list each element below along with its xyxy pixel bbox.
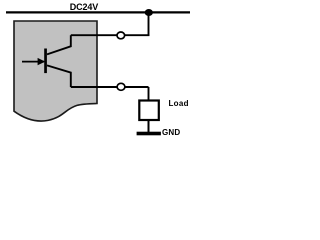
transistor Q1 base arrow [38, 58, 46, 65]
junction dot on DC24V rail [145, 9, 153, 16]
PLC output module body (shaded region) [14, 21, 97, 121]
transistor Q1 collector lead [47, 35, 71, 54]
svg-text:Load: Load [169, 99, 189, 108]
svg-text:GND: GND [162, 128, 180, 137]
wire: drop from emitter wire down to load [148, 87, 150, 101]
transistor Q1 base lead [22, 61, 44, 63]
load resistor box [139, 101, 159, 121]
wire: collector terminal horizontal [71, 34, 150, 36]
ground bar [137, 132, 161, 136]
wire: DC24V top rail [6, 11, 190, 13]
terminal circle (collector output) [117, 32, 125, 39]
wire: riser from junction down to collector terminal wire [148, 13, 150, 37]
terminal circle (emitter output) [117, 83, 125, 90]
wire: emitter terminal horizontal [71, 86, 149, 88]
transistor Q1 base bar [44, 49, 47, 74]
transistor Q1 emitter lead [47, 65, 71, 87]
svg-text:DC24V: DC24V [70, 2, 98, 12]
wire: load to ground stem [148, 120, 150, 132]
